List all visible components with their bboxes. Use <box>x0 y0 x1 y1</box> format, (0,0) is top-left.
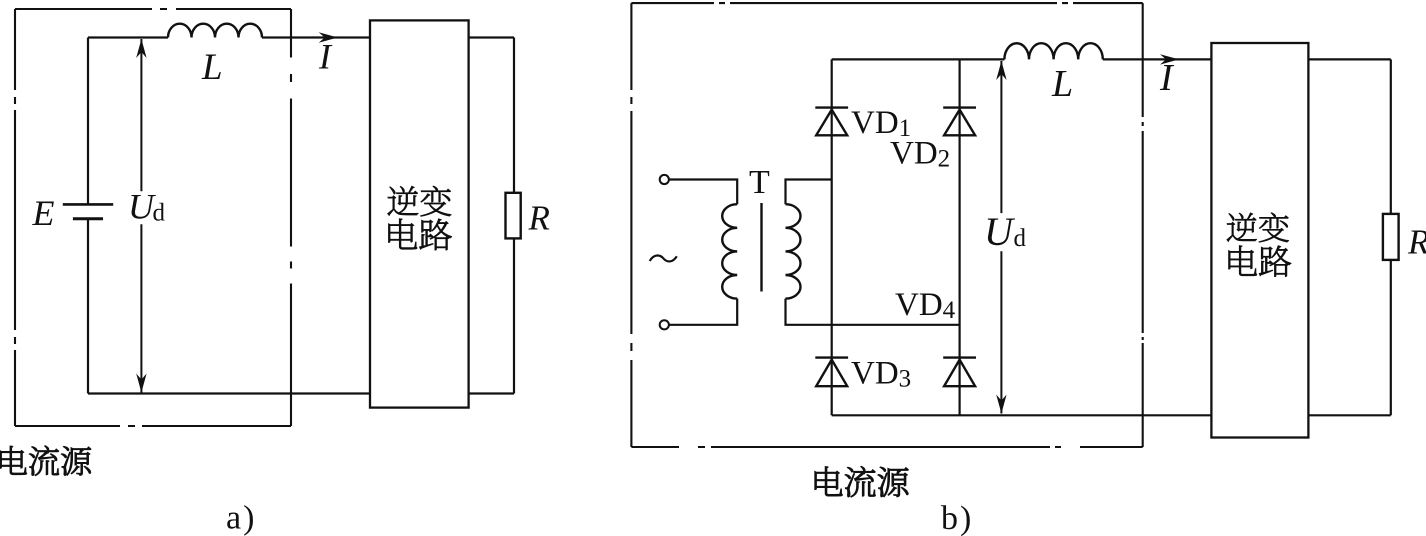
svg-text:L: L <box>1051 63 1073 105</box>
transformer core <box>760 203 762 292</box>
battery E branch (left vertical wire) <box>87 38 89 394</box>
svg-text:d: d <box>1014 225 1027 252</box>
svg-text:T: T <box>749 164 770 201</box>
AC input terminal bottom <box>660 320 669 329</box>
bridge right leg <box>958 59 960 415</box>
inverter text line2 a: dian-lu <box>388 219 451 250</box>
Ud measure line (b) <box>1000 61 1002 414</box>
inverter block box a <box>370 20 469 407</box>
battery E short plate <box>73 217 103 220</box>
label dian-liu-yuan (current source) b <box>815 466 908 497</box>
current arrow I (b) <box>1160 54 1179 64</box>
inductor L (a) <box>168 24 262 38</box>
label dian-liu-yuan (current source) a <box>0 446 91 476</box>
inductor L (b) <box>1004 43 1102 59</box>
svg-text:d: d <box>153 199 166 226</box>
current-source boundary box b (dash-dot) <box>631 3 1142 447</box>
wire inverter a to load branch top <box>469 36 514 38</box>
bridge top rail to inductor <box>832 58 1005 60</box>
wire secondary bottom to bridge right leg <box>786 299 960 325</box>
resistor R (b) <box>1383 214 1399 260</box>
svg-text:U: U <box>984 209 1016 254</box>
diode VD3 <box>815 358 848 387</box>
svg-text:I: I <box>1159 57 1175 99</box>
bridge left leg <box>831 59 833 415</box>
svg-text:I: I <box>318 36 333 76</box>
svg-text:a): a) <box>226 500 256 536</box>
svg-text:R: R <box>528 199 550 238</box>
diode VD1 <box>815 108 848 136</box>
wire inverter b to load branch top <box>1308 58 1390 60</box>
Ud measure line (a) with arrows both ends <box>140 39 142 393</box>
load branch vertical (a) <box>513 38 515 394</box>
diode VD2 <box>943 108 976 136</box>
svg-text:b): b) <box>941 500 973 536</box>
inverter text line1 b: ni-bian <box>1227 213 1289 243</box>
inverter block box b <box>1211 43 1308 438</box>
battery E long plate <box>63 203 113 206</box>
resistor R (a) <box>506 193 521 239</box>
load branch vertical (b) <box>1390 59 1392 415</box>
svg-text:R: R <box>1407 222 1426 261</box>
current-source boundary box a (dash-dot) <box>15 9 291 426</box>
wire top terminal to transformer primary <box>669 180 737 205</box>
wire inductor b to inverter box b with current arrow <box>1103 58 1212 60</box>
svg-text:L: L <box>201 47 223 88</box>
wire secondary top to bridge left leg <box>786 180 832 205</box>
current arrow I (a) <box>319 32 338 42</box>
AC source symbol ~ <box>650 256 677 262</box>
transformer T primary winding <box>722 204 737 298</box>
inverter text line2 b: dian-lu <box>1229 246 1291 277</box>
bridge bottom rail <box>832 414 1212 416</box>
wire inverter b to load branch bottom <box>1308 414 1390 416</box>
svg-text:E: E <box>32 193 55 233</box>
inverter text line1 a: ni-bian <box>388 186 451 216</box>
wire inverter a to load branch bottom <box>469 392 514 394</box>
diode VD4 <box>943 358 976 387</box>
wire top (battery to inductor) <box>88 36 168 38</box>
transformer secondary winding <box>786 204 801 298</box>
AC input terminal top <box>660 175 669 184</box>
wire primary bottom to bottom terminal <box>669 299 737 325</box>
wire inductor to inverter box a, with current arrow <box>262 36 370 38</box>
wire bottom (battery to inverter box a) <box>88 392 370 394</box>
